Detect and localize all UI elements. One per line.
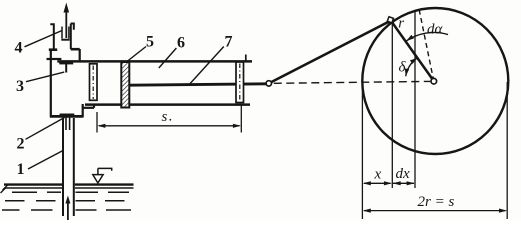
water dashes [2,192,131,210]
svg-text:7: 7 [225,34,233,51]
water level mark [93,168,112,183]
crank pin [387,17,393,23]
air chamber 4 (chimney) [49,24,80,50]
svg-text:s: s [162,109,168,125]
svg-text:x: x [374,167,382,183]
ground hatch ticks [1,184,10,193]
x dimension [363,181,392,185]
right cylinder cover [236,62,244,103]
dashed centerline pivot to wheel center [274,81,430,83]
delivery valve 3 [59,63,73,72]
svg-text:4: 4 [15,40,23,57]
cylinder 6 [57,55,252,105]
svg-text:r: r [398,16,404,32]
2r=s dimension [363,209,507,213]
svg-text:6: 6 [177,35,185,52]
left cylinder cover [90,64,98,101]
discharge arrow [64,3,70,39]
extension line dx [414,11,416,188]
svg-text:2: 2 [17,136,25,153]
crank radius [392,22,433,80]
rod pivot [266,81,271,86]
wheel center pivot [431,78,437,84]
label 2 leader [26,118,65,140]
svg-text:5: 5 [146,34,154,51]
connecting rod [271,21,390,82]
label 6 leader [159,48,177,68]
label 5 leader [127,47,146,62]
s dimension [97,104,241,133]
svg-text:δ: δ [399,60,407,76]
piston 5 [121,62,129,108]
water surface [4,185,134,188]
label 7 leader [189,47,224,86]
extension line circle right [506,82,508,219]
suction pipe 1 [63,118,74,216]
inner discharge tube [61,27,69,40]
label 3 leader [26,72,64,82]
extension line from pin [391,22,393,188]
dx dimension [393,181,415,185]
svg-text:1: 1 [17,161,25,178]
svg-text:dx: dx [396,166,411,182]
flow arrow in suction pipe [65,196,70,221]
pump body [47,49,95,118]
d-alpha arc [406,32,448,41]
displaced radius (dashed) [419,10,434,81]
piston rod 7 [129,84,266,85]
suction valve 2 [60,115,75,130]
extension line circle left [361,82,363,219]
svg-text:2r = s: 2r = s [418,194,455,210]
wheel [362,8,508,154]
label 4 leader [25,31,63,47]
delta arc [405,58,418,76]
svg-text:3: 3 [16,78,24,95]
label 1 leader [28,151,63,170]
svg-text:dα: dα [427,22,444,38]
